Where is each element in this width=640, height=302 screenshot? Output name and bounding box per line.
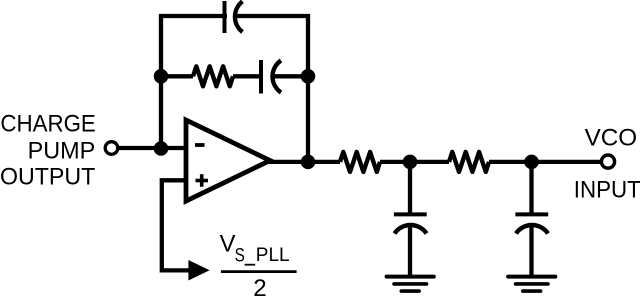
label: VCO INPUT — [574, 124, 640, 203]
terminal: VCO input — [601, 155, 614, 168]
svg-text:VCO: VCO — [585, 124, 638, 151]
svg-text:INPUT: INPUT — [574, 177, 640, 204]
node: inverting input junction — [154, 141, 169, 156]
wire: non-inverting input stub and down-riser — [162, 180, 192, 270]
wire: inverting input wire from charge pump terminal to op-amp — [117, 146, 186, 150]
svg-text:PUMP: PUMP — [28, 137, 96, 164]
capacitor C1 (top feedback) — [225, 1, 243, 33]
wire: top feedback horizontal (left segment to C1) — [159, 14, 227, 18]
svg-text:CHARGE: CHARGE — [0, 111, 95, 138]
label: V_S_PLL over 2 — [220, 231, 297, 302]
wire: op-amp output to R2 — [266, 160, 340, 164]
wire: R2 to R3 — [380, 160, 449, 164]
wire: top feedback horizontal (C1 to right riser) — [236, 14, 310, 18]
wire: first shunt cap riser — [408, 162, 412, 213]
svg-text:V: V — [220, 231, 236, 258]
wire: C3 to ground — [408, 225, 412, 276]
capacitor C3 (first shunt) — [394, 214, 427, 233]
resistor R2 (first loop filter series resistor) — [340, 152, 380, 172]
wire: middle branch right segment — [273, 74, 308, 78]
wire: right feedback vertical riser — [306, 14, 310, 162]
capacitor C4 (second shunt) — [515, 214, 548, 233]
resistor R1 (feedback) — [193, 66, 233, 86]
resistor R3 (second loop filter series resistor) — [449, 152, 489, 172]
label: CHARGE PUMP OUTPUT — [0, 111, 96, 191]
wire: R3 to VCO terminal — [489, 160, 602, 164]
wire: middle branch between R1 and C2 — [233, 74, 261, 78]
node: middle branch right junction — [301, 69, 316, 84]
wire: C4 to ground — [529, 225, 533, 276]
svg-text:S: S — [235, 245, 245, 267]
wire: left feedback vertical riser — [159, 14, 163, 148]
svg-text:2: 2 — [253, 275, 266, 302]
svg-text:PLL: PLL — [256, 244, 290, 266]
capacitor C2 (feedback, series with R1) — [261, 60, 281, 94]
terminal: charge pump output — [105, 142, 118, 155]
wire: middle branch left segment — [161, 74, 193, 78]
node: op-amp output / feedback junction — [301, 155, 316, 170]
ground (second shunt) — [508, 277, 555, 292]
svg-text:OUTPUT: OUTPUT — [0, 163, 95, 190]
node: middle branch left junction — [154, 69, 169, 84]
ground (first shunt) — [387, 277, 434, 292]
wire: second shunt cap riser — [529, 162, 533, 213]
arrowhead: VS_PLL/2 source — [188, 260, 209, 281]
op-amp U1 — [186, 120, 270, 201]
node: first shunt junction — [403, 155, 418, 170]
node: second shunt junction — [524, 155, 539, 170]
